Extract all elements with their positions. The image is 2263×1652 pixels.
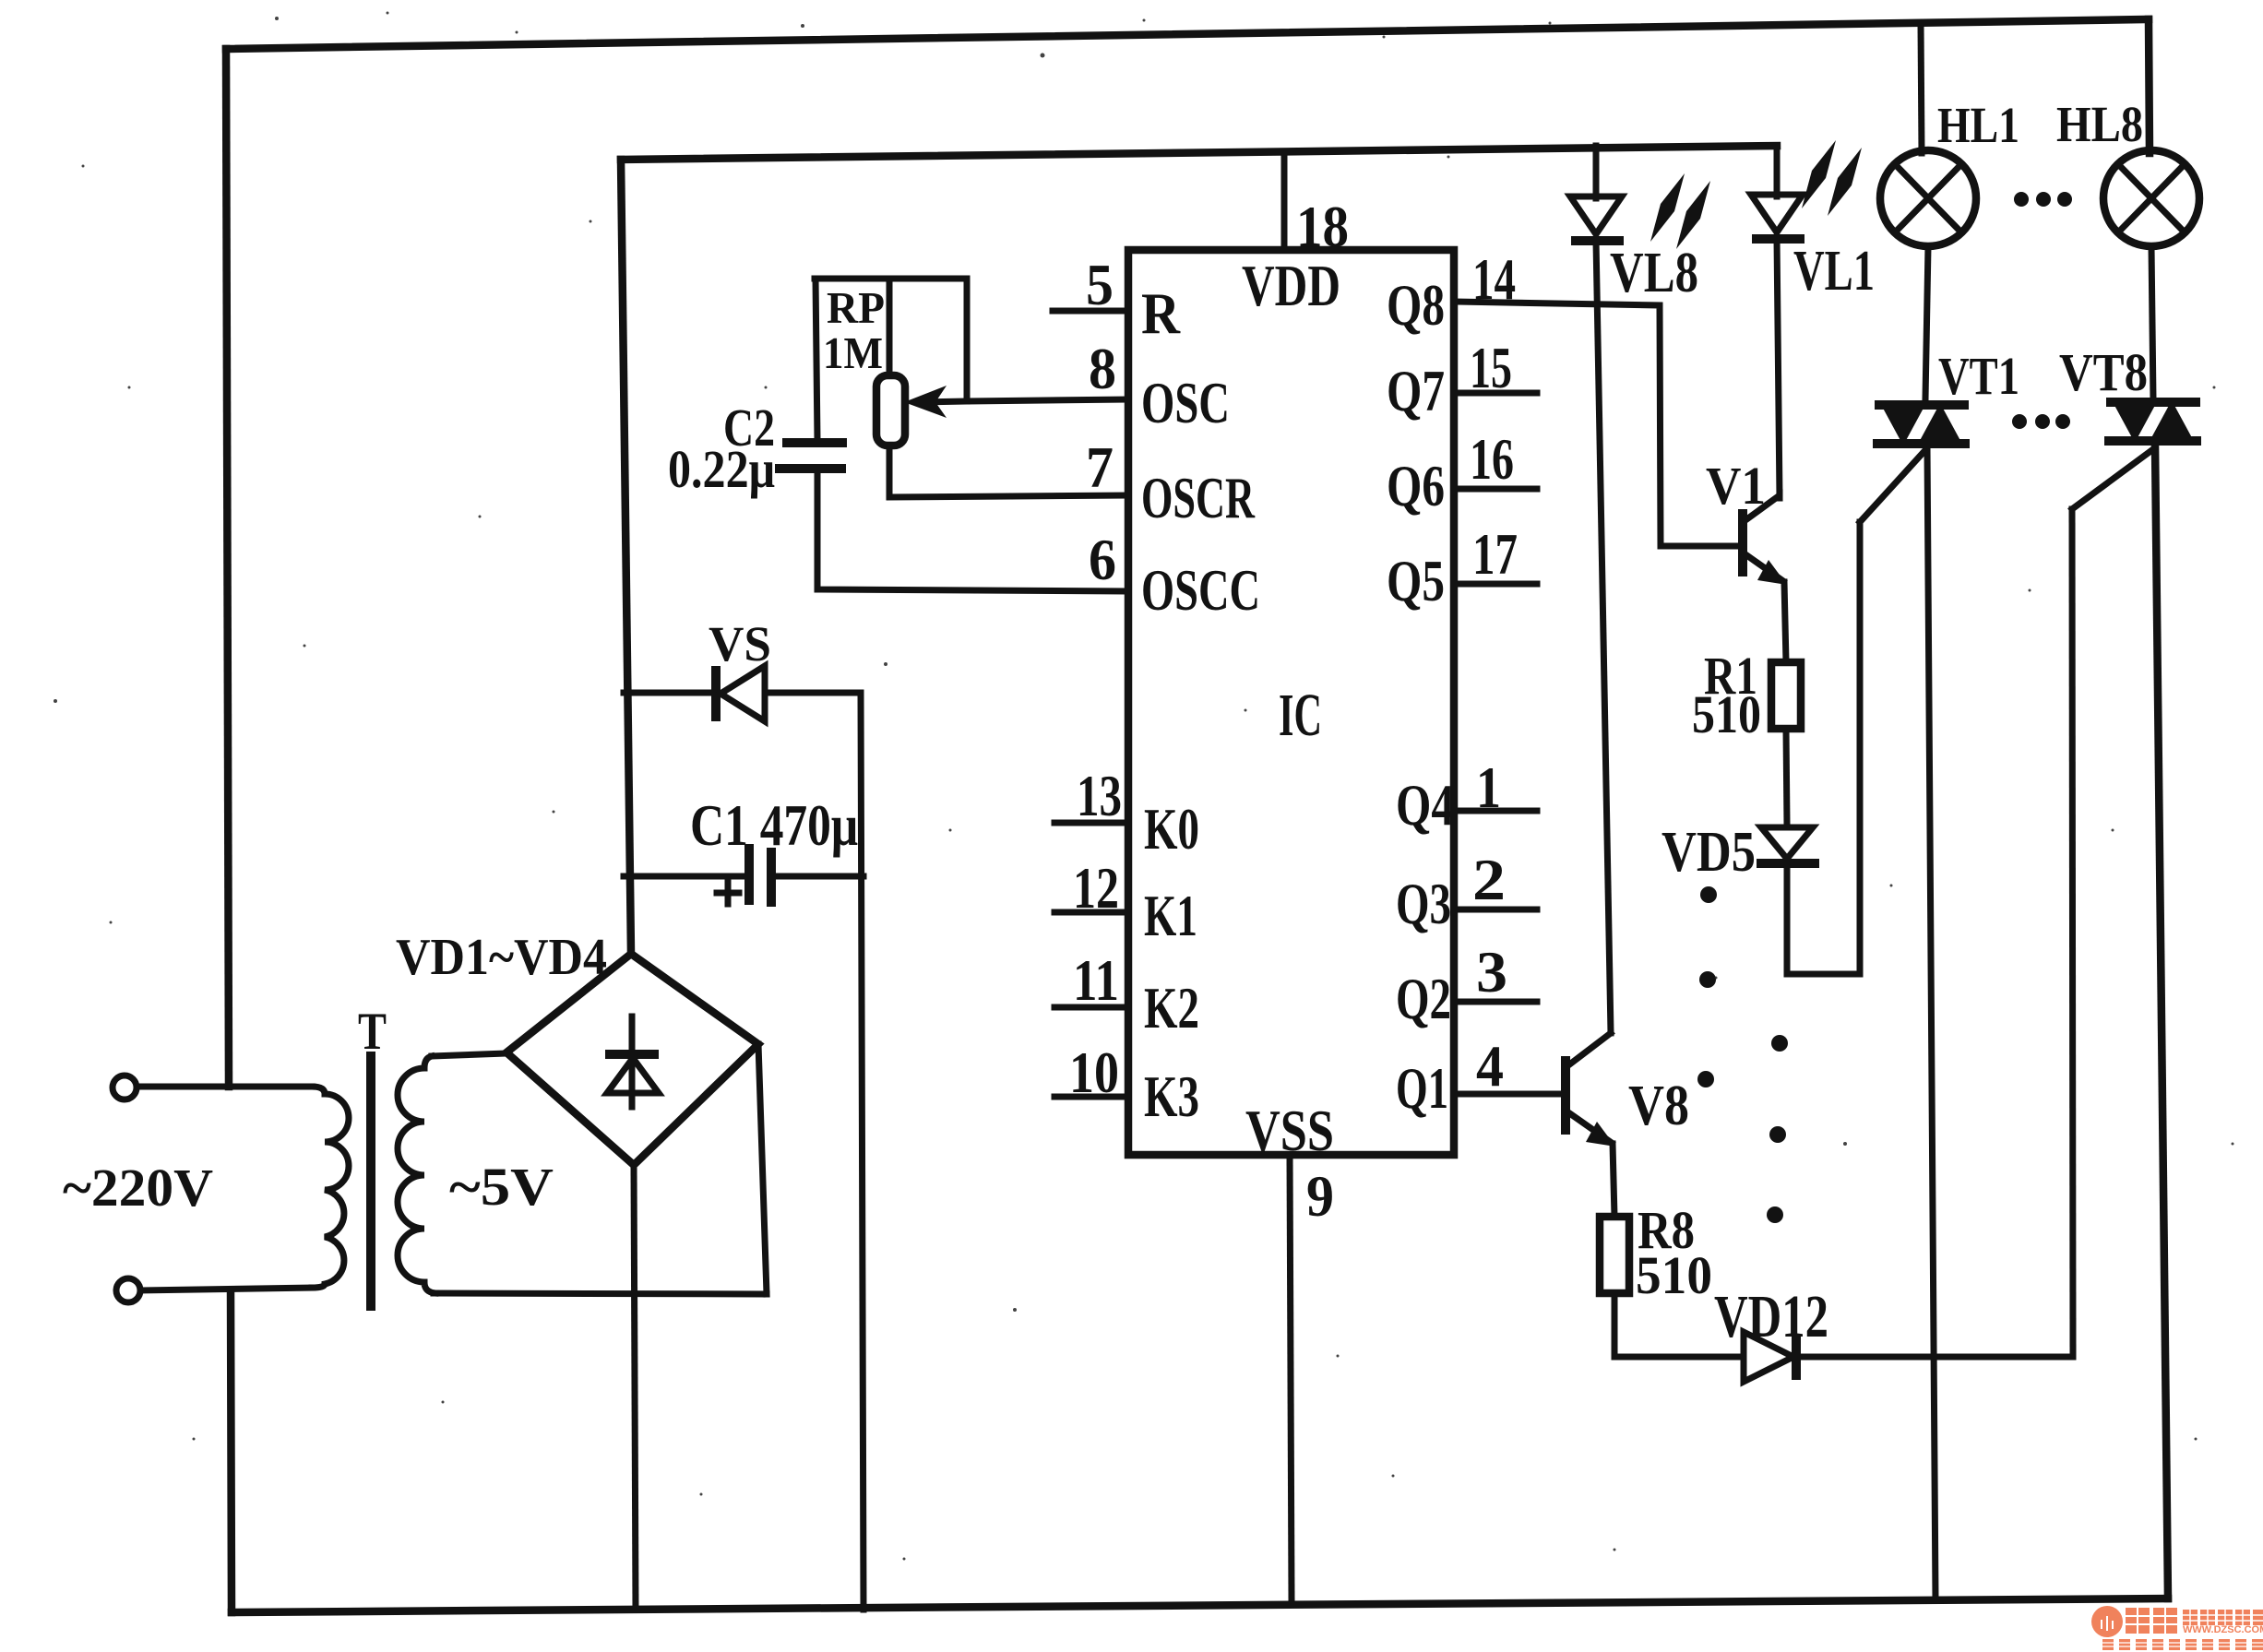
transistor V8 base bar: [1561, 1056, 1570, 1135]
svg-text:Q6: Q6: [1387, 453, 1445, 518]
pin 6 wire (OSCC) to C2 bottom plate: [817, 469, 1128, 591]
diode VD5: [1757, 827, 1819, 863]
transistor V8 collector: [1568, 1033, 1611, 1065]
svg-text:OSCR: OSCR: [1141, 465, 1256, 530]
triac VT8: [2104, 398, 2201, 445]
svg-text:V1: V1: [1706, 456, 1766, 516]
svg-text:Q5: Q5: [1387, 548, 1445, 613]
resistor R8: [1600, 1217, 1629, 1293]
wire: bridge bottom vertex to bottom bus: [634, 1165, 636, 1610]
wire: top terminal to primary coil: [137, 1084, 312, 1090]
svg-text:VL1: VL1: [1793, 240, 1875, 303]
pin 2 stub: [1454, 907, 1537, 913]
wire: outer bottom bus (neutral rail): [232, 1599, 2168, 1612]
wire: triac VT8 to bottom bus: [2155, 445, 2168, 1599]
svg-text:12: 12: [1073, 855, 1119, 921]
svg-text:K0: K0: [1144, 796, 1199, 862]
wire: VD12 cathode to VT8 gate riser: [1796, 1354, 2073, 1361]
wire: lamp HL8 to triac VT8: [2151, 246, 2153, 399]
svg-text:HL8: HL8: [2056, 96, 2143, 152]
LED VL1: [1751, 195, 1804, 239]
pin 17 stub: [1454, 581, 1537, 588]
pin 7 wire (OSCR) to RP bottom: [889, 446, 1128, 497]
svg-text:0.22μ: 0.22μ: [668, 439, 775, 499]
svg-text:10: 10: [1069, 1040, 1119, 1105]
svg-text:VD1~VD4: VD1~VD4: [396, 929, 607, 986]
watermark text 电子市场网: [2183, 1610, 2263, 1635]
transformer T core: [366, 1052, 375, 1311]
light arrows of VL8: [1650, 173, 1710, 249]
wire: top bus to lamp HL8: [2149, 19, 2150, 153]
svg-text:2: 2: [1472, 847, 1506, 912]
wire: right vertical from VS wire down to bottom bus: [861, 693, 864, 1610]
svg-text:1: 1: [1476, 755, 1501, 820]
svg-text:Q7: Q7: [1387, 358, 1445, 423]
capacitor C1: [749, 844, 771, 907]
IC body: [1128, 250, 1454, 1155]
wire: outer left bus lower segment: [231, 1290, 232, 1612]
diode VD12: [1744, 1332, 1796, 1382]
svg-text:K2: K2: [1144, 975, 1199, 1040]
wire: inner top bus (VDD rail): [621, 146, 1777, 160]
pin 9 wire (VSS) to bottom bus: [1290, 1155, 1292, 1600]
wire: V1 emitter to resistor R1: [1784, 582, 1786, 662]
pin 13 stub (K0): [1054, 820, 1128, 826]
wire: VS anode to right vertical: [765, 690, 861, 696]
wire: top bus drop to lamp HL1: [1921, 23, 1922, 153]
wire: VDD rail corner down to LED VL1 anode: [1774, 146, 1781, 196]
wire: VT8 gate diagonal: [2072, 449, 2153, 509]
wire: C1 right plate to right vertical: [771, 874, 864, 880]
wiper arrowhead: [904, 386, 947, 418]
pin 8 stub/wire (OSC) runs to RP wiper: [923, 399, 1128, 402]
svg-text:VD12: VD12: [1714, 1283, 1828, 1350]
terminal circle 220V bottom: [116, 1278, 140, 1302]
wire: lamp HL1 to triac VT1: [1925, 246, 1928, 399]
plus sign of C1: [717, 882, 739, 904]
svg-text:Q4: Q4: [1396, 772, 1454, 838]
wire: C1 wire from inner left bus: [624, 874, 747, 880]
wire: LED VL1 cathode to V1 collector: [1777, 239, 1780, 498]
svg-text:Q2: Q2: [1396, 966, 1451, 1031]
svg-text:~220V: ~220V: [63, 1158, 213, 1218]
wire: R1 to diode VD5: [1786, 729, 1787, 825]
svg-text:C1 470μ: C1 470μ: [690, 792, 858, 858]
svg-text:13: 13: [1077, 763, 1122, 828]
svg-text:T: T: [358, 1003, 387, 1061]
svg-text:V8: V8: [1628, 1075, 1689, 1137]
wire: outer left bus upper segment: [226, 49, 229, 1087]
svg-text:4: 4: [1476, 1033, 1504, 1099]
wire: triac VT1 to bottom bus: [1927, 447, 1935, 1599]
wire: VDD stub to IC pin 18: [1281, 152, 1288, 250]
svg-text:VD5: VD5: [1662, 821, 1756, 884]
ellipsis dots column (V stages): [1697, 886, 1717, 1087]
svg-text:510: 510: [1692, 684, 1761, 744]
wire: outer top bus (220V phase line): [226, 19, 2149, 49]
svg-text:1M: 1M: [823, 327, 883, 378]
svg-text:16: 16: [1470, 426, 1514, 492]
wire: LED VL8 cathode down to V8 collector: [1596, 241, 1611, 1033]
svg-text:17: 17: [1472, 521, 1518, 587]
transistor V1 collector: [1745, 495, 1780, 520]
light arrows of VL1: [1802, 140, 1862, 216]
svg-text:VDD: VDD: [1242, 253, 1340, 318]
ellipsis dots column (VD diodes): [1767, 1035, 1788, 1223]
wire: V8 emitter to resistor R8: [1613, 1144, 1614, 1217]
bridge rectifier VD1~VD4 diamond: [506, 954, 758, 1165]
ellipsis dots between HL1 and HL8: [2014, 192, 2072, 207]
svg-text:9: 9: [1306, 1163, 1334, 1229]
wire: bottom terminal to primary coil: [140, 1288, 312, 1290]
wire: RP loop left vertical to C2 top plate: [816, 279, 817, 440]
pin 11 stub (K2): [1054, 1004, 1128, 1011]
transistor V1 base bar: [1738, 509, 1747, 576]
potentiometer RP body: [876, 375, 905, 446]
wire: VDD rail drop to LED VL8 anode: [1593, 146, 1600, 198]
wire: RP loop right vertical to wiper wire: [964, 279, 971, 401]
wire: bridge AC bottom to transformer secondary bottom: [434, 1293, 767, 1294]
lamp HL1: [1880, 150, 1976, 246]
pin 14 wire (Q8) to V1 base: [1454, 302, 1740, 546]
svg-text:VL8: VL8: [1610, 242, 1698, 304]
svg-text:Q8: Q8: [1387, 272, 1445, 338]
resistor R1: [1771, 662, 1801, 729]
transformer T secondary winding: [398, 1056, 435, 1293]
wire: bridge AC left vertex to secondary top: [432, 1053, 506, 1056]
triac VT1: [1873, 401, 1970, 447]
svg-text:K1: K1: [1144, 883, 1197, 948]
svg-text:3: 3: [1476, 939, 1507, 1004]
svg-text:14: 14: [1472, 246, 1516, 312]
svg-text:R: R: [1141, 280, 1181, 346]
wire: R8 to VD12 anode: [1614, 1293, 1744, 1357]
diode VS: [716, 666, 765, 721]
pin 1 stub: [1454, 808, 1537, 814]
wire: bridge right vertex down: [758, 1044, 767, 1294]
pin 10 stub (K3): [1054, 1094, 1128, 1100]
transformer T primary winding: [312, 1087, 349, 1288]
svg-text:8: 8: [1089, 336, 1116, 401]
wire: VT1 gate riser: [1857, 522, 1864, 974]
svg-text:WWW.DZSC.COM: WWW.DZSC.COM: [2183, 1624, 2263, 1635]
svg-text:OSC: OSC: [1141, 370, 1230, 435]
pin 3 stub: [1454, 999, 1537, 1005]
wire: RP loop top: [815, 276, 967, 282]
pin 4 wire (Q1) to V8 base: [1454, 1091, 1562, 1098]
svg-text:510: 510: [1636, 1245, 1712, 1305]
terminal circle 220V top: [113, 1076, 137, 1099]
potentiometer RP top lead: [887, 279, 893, 375]
pin 15 stub: [1454, 390, 1537, 397]
capacitor C2 bottom plate: [775, 464, 846, 473]
svg-text:7: 7: [1086, 434, 1114, 500]
transistor V8 emitter with arrow: [1568, 1112, 1615, 1147]
svg-text:OSCC: OSCC: [1141, 557, 1260, 623]
svg-text:VT8: VT8: [2059, 342, 2148, 402]
svg-text:VS: VS: [709, 616, 771, 671]
svg-text:IC: IC: [1279, 682, 1322, 749]
watermark slogan row: [2102, 1639, 2263, 1650]
svg-text:K3: K3: [1144, 1064, 1199, 1129]
svg-text:HL1: HL1: [1937, 97, 2019, 153]
pin 16 stub: [1454, 486, 1537, 493]
bridge internal diode: [605, 1016, 659, 1107]
wire: inner left bus (rectifier + to VDD rail): [621, 160, 631, 954]
svg-text:RP: RP: [827, 282, 885, 333]
svg-text:Q3: Q3: [1396, 871, 1451, 936]
svg-text:11: 11: [1073, 947, 1119, 1013]
svg-text:~5V: ~5V: [449, 1157, 554, 1217]
svg-text:15: 15: [1470, 335, 1512, 400]
transistor V1 emitter with arrow: [1745, 554, 1787, 585]
svg-text:6: 6: [1089, 527, 1116, 592]
diode VS wire from inner left bus: [624, 690, 716, 696]
watermark text 维库: [2126, 1608, 2177, 1634]
svg-text:VT1: VT1: [1938, 346, 2019, 406]
watermark logo circle: [2091, 1606, 2123, 1637]
LED VL8: [1570, 196, 1624, 241]
wire: VT1 gate diagonal: [1860, 450, 1925, 522]
svg-text:5: 5: [1086, 252, 1114, 317]
pin 12 stub (K1): [1054, 909, 1128, 916]
pin 5 stub (R): [1053, 308, 1128, 315]
capacitor C2 top plate: [782, 438, 847, 447]
lamp HL8: [2103, 150, 2199, 246]
svg-text:Q1: Q1: [1396, 1055, 1448, 1121]
wire: VT8 gate riser: [2072, 509, 2073, 1357]
ellipsis dots between VT1 and VT8: [2012, 414, 2070, 429]
wire: VD5 cathode down and right: [1787, 865, 1860, 974]
